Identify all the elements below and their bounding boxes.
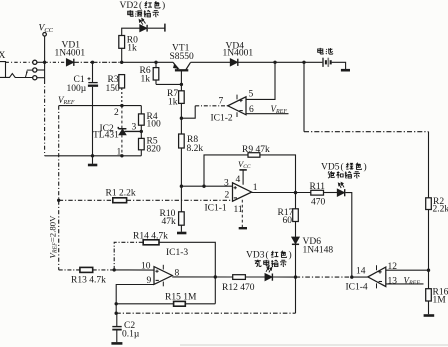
wire into IC1-4 pin14	[296, 276, 352, 278]
svg-text:150: 150	[106, 84, 121, 94]
op-amp IC1-3	[154, 265, 172, 287]
wire bottom rail (dash-dot)	[116, 312, 295, 314]
diode VD1	[67, 59, 74, 66]
wire plug lower lead with squiggle	[6, 74, 33, 78]
contact 1	[33, 60, 37, 64]
resistor R6	[153, 62, 159, 84]
wire VD1 to C1 node	[74, 61, 92, 63]
resistor R7	[179, 84, 185, 118]
svg-text:100µ: 100µ	[67, 84, 87, 94]
resistor R3	[119, 75, 125, 106]
wire R11 to LED VD5	[324, 192, 338, 194]
wire contact3 to rail	[37, 77, 45, 79]
scanner artifact bottom	[180, 344, 448, 346]
wire pin2 input (Vref via R1)	[59, 199, 113, 201]
svg-text:1N4001: 1N4001	[223, 49, 254, 59]
wire IC1-3 output to R12	[172, 276, 232, 278]
resistor R4	[139, 106, 145, 132]
wire Vref rail corner to R13	[59, 269, 80, 271]
wire battery sense down	[303, 62, 305, 131]
wire IC1-2 pin5 to battery rail	[246, 62, 275, 99]
wire VD6 node down to bottom rail	[295, 277, 297, 313]
resistor R13	[80, 267, 93, 272]
resistor R0	[119, 36, 125, 63]
svg-text:7: 7	[219, 97, 224, 107]
svg-text:470: 470	[311, 198, 326, 208]
LED VD3	[265, 267, 272, 281]
label VD5 function	[328, 171, 360, 178]
connector X bracket	[0, 62, 6, 78]
battery	[323, 58, 331, 67]
wire pin9 branch	[116, 285, 154, 314]
svg-text:X: X	[0, 51, 6, 61]
wire across top (dash-dot)	[304, 131, 429, 133]
wire left rail x44 dashed down to ground rail	[44, 80, 46, 156]
svg-text:14: 14	[356, 267, 366, 277]
svg-text:3: 3	[224, 179, 229, 189]
resistor R16	[426, 289, 432, 301]
svg-text:8: 8	[175, 269, 180, 279]
wire VD2 to end bar	[148, 27, 165, 29]
svg-text:1M: 1M	[433, 296, 447, 306]
ground rail of IC2 block	[45, 155, 142, 157]
wire Vcc stem	[44, 36, 46, 62]
svg-text:VD3: VD3	[246, 251, 265, 261]
svg-text:60: 60	[283, 216, 293, 226]
wire R0 top to LED VD2	[122, 28, 140, 35]
svg-text:(: (	[341, 162, 344, 173]
svg-text:11: 11	[234, 205, 243, 215]
wire VD3 to VD6 node	[273, 276, 296, 278]
wire IC1-1 output	[252, 192, 311, 194]
transistor VT1	[173, 62, 190, 84]
op-amp IC2 TL431	[118, 106, 141, 156]
svg-text:2: 2	[114, 108, 119, 118]
svg-text:100: 100	[147, 120, 162, 130]
label battery	[318, 48, 333, 54]
svg-text:IC1-1: IC1-1	[205, 204, 227, 214]
wire R14 feedback loop	[114, 242, 143, 270]
svg-text:12: 12	[388, 262, 398, 272]
svg-text:): )	[162, 0, 165, 11]
wire R12 to LED VD3	[245, 276, 265, 278]
wire node to VD1 (dashed)	[45, 61, 67, 63]
wire IC1-2 pin6 to VREF	[246, 113, 289, 115]
svg-text:R1 2.2k: R1 2.2k	[106, 189, 136, 199]
svg-text:S8550: S8550	[170, 52, 195, 62]
svg-text:0.1µ: 0.1µ	[122, 330, 140, 340]
svg-text:9: 9	[147, 276, 152, 286]
wire IC1-4 pin12	[386, 269, 429, 271]
svg-text:3: 3	[132, 123, 137, 133]
svg-text:R14 4.7k: R14 4.7k	[133, 232, 168, 242]
Vcc supply bar to pin4	[239, 170, 246, 185]
wire R6 bottom to base node	[156, 83, 181, 85]
LED VD2	[139, 19, 147, 32]
svg-text:): )	[289, 250, 292, 261]
wire top rail dashed from plug to contact	[6, 61, 33, 63]
resistor R17	[293, 209, 299, 222]
svg-text:47k: 47k	[162, 217, 177, 227]
svg-text:6: 6	[249, 105, 254, 115]
resistor R5	[139, 131, 145, 155]
label VD2 red	[120, 0, 166, 11]
svg-text:1k: 1k	[141, 75, 151, 85]
svg-text:R12 470: R12 470	[222, 283, 255, 293]
resistor R2	[426, 198, 432, 210]
ground (IC1-1 pin11)	[239, 227, 247, 229]
op-amp IC1-4	[368, 265, 386, 288]
svg-text:(: (	[266, 250, 269, 261]
wire R0 node to R6 node to VT1 emitter	[122, 61, 174, 63]
svg-text:R15 1M: R15 1M	[165, 293, 197, 303]
wire Vref left rail (dash-dot)	[58, 106, 60, 270]
svg-text:13: 13	[388, 277, 398, 287]
wire pin3 input	[181, 185, 232, 187]
svg-text:1k: 1k	[168, 98, 178, 108]
resistor R8	[179, 118, 185, 186]
wire VD5 down to IC1-4 input line	[345, 193, 351, 278]
ground (C1)	[88, 156, 97, 165]
terminal bar after VD2	[164, 24, 166, 32]
wire C1 node to R0 node	[93, 61, 122, 63]
resistor R10	[179, 186, 185, 232]
diode VD6	[292, 237, 299, 277]
wire pin11 to ground (dashed)	[241, 200, 243, 227]
wire R15 line	[116, 303, 173, 305]
capacitor C1	[88, 62, 99, 156]
label VD2 function	[128, 10, 159, 17]
wire output node down through R17	[295, 193, 297, 209]
capacitor C2	[112, 313, 121, 342]
svg-text:R9 47k: R9 47k	[242, 145, 270, 155]
node Vref top line of IC2 block	[59, 105, 142, 107]
resistor R15	[174, 301, 186, 306]
wire R9 branch	[204, 155, 248, 186]
wire R14 right down to output	[159, 242, 215, 303]
svg-text:IC1-2: IC1-2	[211, 114, 233, 124]
LED VD5	[337, 183, 344, 197]
wire IC1-4 pin13	[386, 283, 424, 285]
svg-text:VD5: VD5	[321, 163, 340, 173]
wire R13 to pin10	[93, 269, 115, 271]
ground (C2)	[111, 342, 122, 345]
svg-text:VD2: VD2	[120, 1, 139, 11]
ground (R10)	[177, 232, 186, 235]
resistor R1	[113, 198, 127, 203]
svg-text:2: 2	[225, 191, 230, 201]
svg-text:): )	[364, 162, 367, 173]
svg-text:4: 4	[236, 175, 241, 185]
op-amp IC1-1	[233, 183, 252, 201]
svg-text:IC1-4: IC1-4	[346, 283, 368, 293]
resistor R11	[311, 190, 324, 195]
contact 2	[33, 68, 37, 72]
wire VD4 to battery	[238, 61, 322, 63]
wire contact1 to node	[37, 61, 45, 63]
svg-text:5: 5	[249, 90, 254, 100]
svg-text:IC1-3: IC1-3	[166, 248, 188, 258]
wire IC1-2 output to R7/R8 node	[181, 106, 195, 118]
diode VD4	[230, 59, 237, 66]
svg-text:1: 1	[253, 183, 258, 193]
ground (battery)	[341, 69, 350, 72]
label VD3 function	[255, 260, 287, 267]
svg-text:8.2k: 8.2k	[187, 144, 204, 154]
svg-text:TL431: TL431	[93, 131, 119, 141]
wire contact2 to rail	[37, 69, 45, 71]
resistor R14	[143, 240, 159, 245]
svg-text:1k: 1k	[127, 44, 137, 54]
wire R9 right to output node	[260, 155, 296, 193]
label VD3 red	[246, 250, 292, 261]
svg-text:R11: R11	[310, 182, 326, 192]
plug moving contact arrow	[25, 72, 27, 77]
contact 3	[33, 76, 37, 80]
wire down right side	[428, 132, 430, 198]
ground (R16)	[424, 314, 435, 317]
svg-text:820: 820	[147, 145, 162, 155]
svg-text:(: (	[139, 0, 142, 11]
wire left rail x44 solid part	[44, 62, 46, 80]
wire battery to ground	[332, 62, 346, 69]
resistor R12	[233, 275, 246, 280]
svg-text:1N4148: 1N4148	[303, 246, 334, 256]
svg-text:1: 1	[117, 148, 122, 158]
wire VT1 collector to VD4	[191, 61, 231, 63]
Vcc terminal	[43, 33, 47, 37]
svg-text:2.2k: 2.2k	[433, 205, 448, 215]
svg-text:10: 10	[141, 262, 151, 272]
resistor R9	[248, 153, 260, 158]
op-amp IC1-2	[228, 95, 246, 117]
svg-text:1N4001: 1N4001	[55, 49, 86, 59]
svg-text:R13 4.7k: R13 4.7k	[71, 276, 106, 286]
label VD5 green	[321, 162, 367, 173]
